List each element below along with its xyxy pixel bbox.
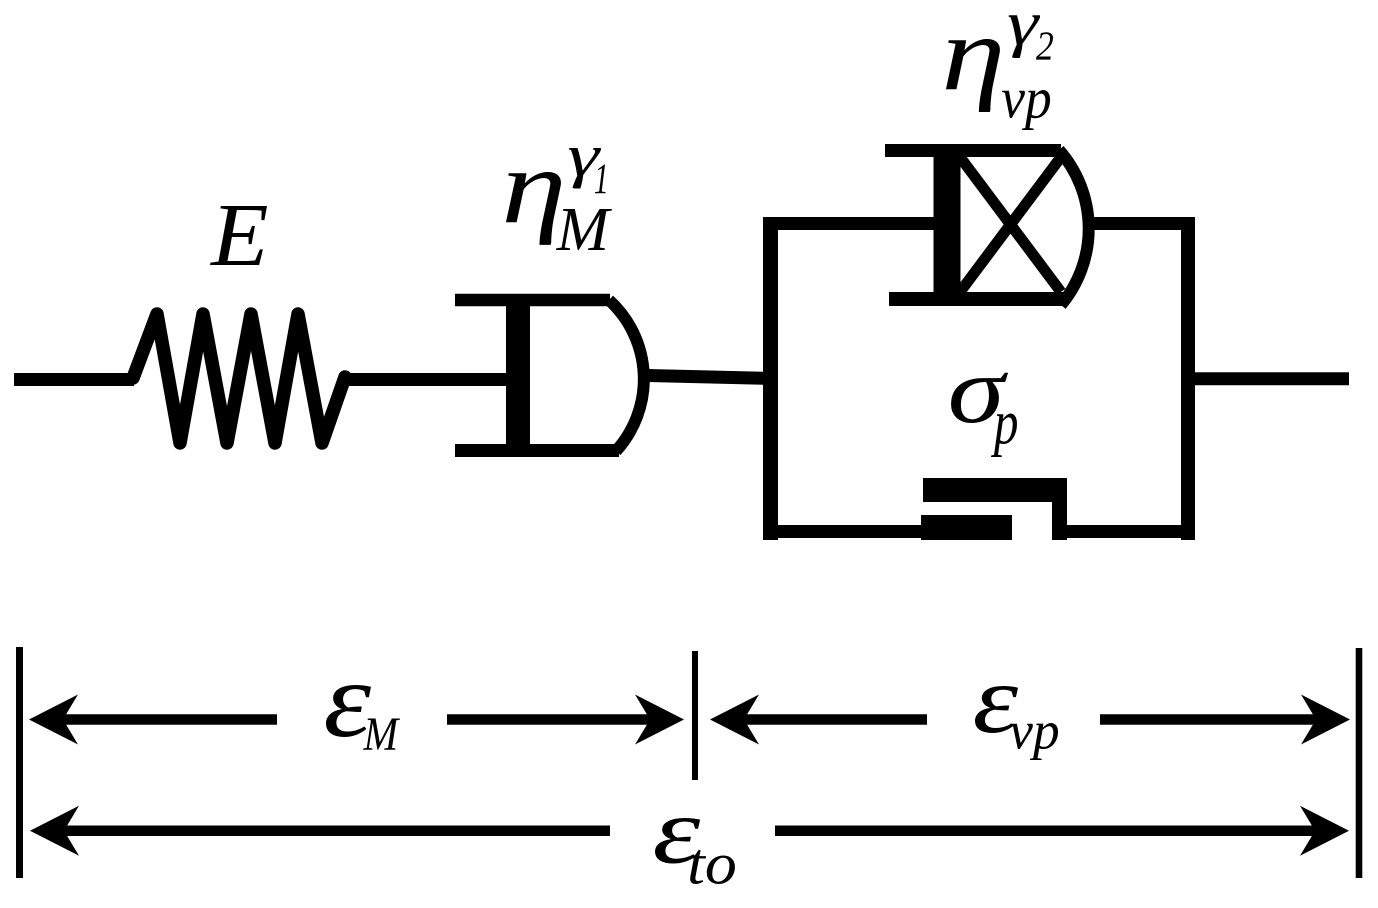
dashpot U2 top plate bbox=[885, 144, 1061, 157]
dashpot U2 bottom plate bbox=[889, 292, 1064, 306]
dashpot U1 bottom plate bbox=[455, 444, 619, 457]
svg-text:M: M bbox=[556, 194, 613, 264]
dimension tick left bbox=[16, 647, 23, 878]
wire dashpot to block bbox=[648, 376, 771, 379]
dashpot U1 piston bbox=[506, 294, 530, 457]
svg-text:p: p bbox=[991, 388, 1019, 458]
dashpot U2 piston bbox=[934, 144, 961, 306]
dashpot U2 cross diagonal 2 bbox=[960, 157, 1061, 292]
arrow eps_vp left shaft bbox=[742, 714, 927, 725]
arrow eps_vp right head bbox=[1301, 695, 1350, 745]
svg-text:vp: vp bbox=[1009, 701, 1059, 761]
wire right lead bbox=[1195, 372, 1349, 385]
svg-text:to: to bbox=[687, 830, 737, 896]
wire top branch right bbox=[1090, 217, 1194, 230]
svg-text:M: M bbox=[363, 709, 401, 761]
arrow eps_to left shaft bbox=[62, 826, 610, 837]
arrow eps_vp right shaft bbox=[1100, 714, 1318, 725]
arrow eps_to left head bbox=[30, 806, 79, 856]
dashpot U1 arc bbox=[609, 300, 644, 451]
dimension tick middle bbox=[692, 651, 698, 780]
svg-text:η: η bbox=[941, 0, 1005, 113]
friction slider upper plate bbox=[923, 478, 1063, 502]
arrow eps_M right shaft bbox=[447, 714, 652, 725]
dashpot U1 top plate bbox=[455, 294, 610, 307]
node block left bar bbox=[763, 217, 778, 540]
spring E bbox=[133, 314, 345, 443]
wire top branch left bbox=[764, 217, 947, 230]
arrow eps_vp left head bbox=[710, 695, 759, 745]
svg-text:2: 2 bbox=[1036, 23, 1054, 69]
wire spring to dashpot bbox=[344, 373, 506, 386]
svg-text:E: E bbox=[209, 186, 268, 285]
friction slider step bbox=[1052, 478, 1067, 540]
arrow eps_M left head bbox=[29, 695, 78, 745]
arrow eps_M left shaft bbox=[61, 714, 277, 725]
friction slider lower plate bbox=[921, 515, 1012, 540]
svg-text:vp: vp bbox=[1001, 66, 1051, 131]
dashpot U2 arc bbox=[1059, 150, 1089, 305]
wire bottom branch left bbox=[764, 525, 1012, 538]
node block right bar bbox=[1181, 217, 1195, 540]
arrow eps_to right shaft bbox=[775, 826, 1317, 837]
arrow eps_to right head bbox=[1300, 806, 1349, 856]
wire bottom branch right bbox=[1052, 525, 1194, 538]
arrow eps_M right head bbox=[635, 695, 684, 745]
dimension tick right bbox=[1356, 648, 1363, 878]
dashpot U2 cross diagonal 1 bbox=[960, 157, 1061, 292]
wire left lead bbox=[14, 373, 134, 386]
